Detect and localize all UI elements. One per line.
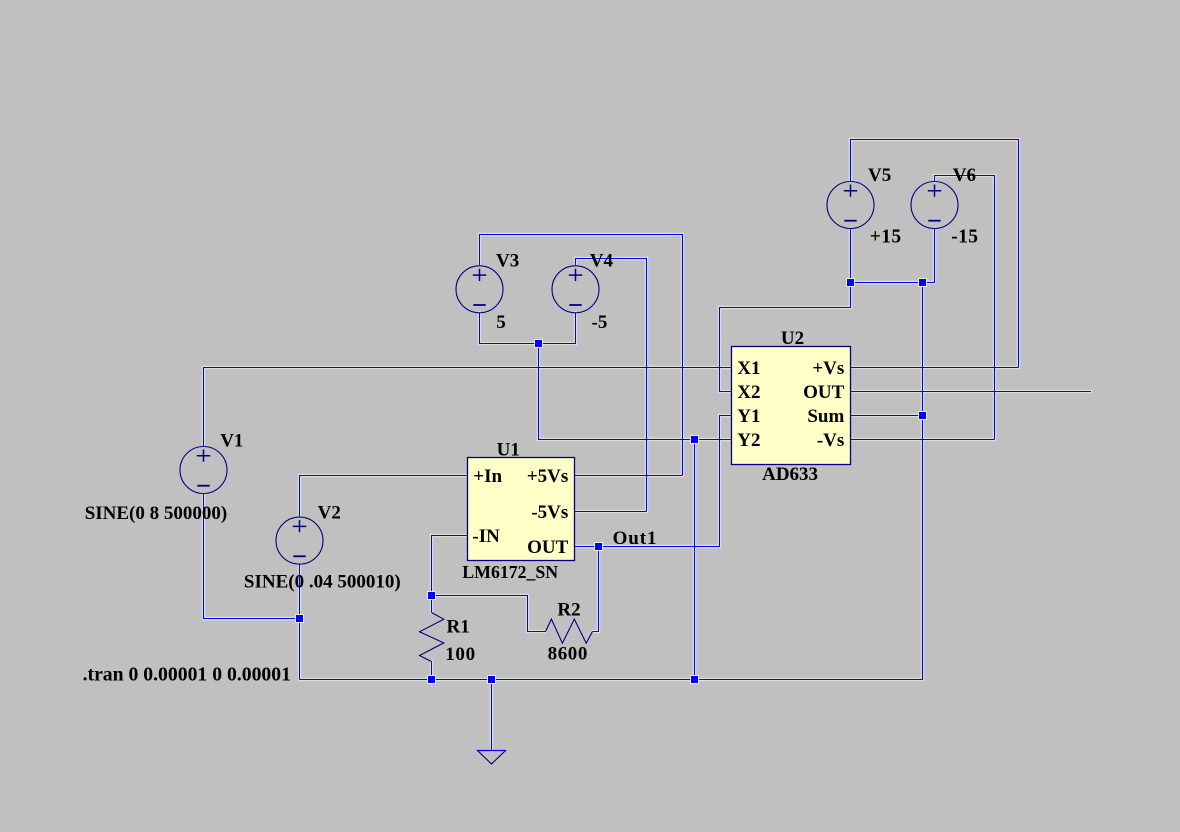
svg-text:Out1: Out1 xyxy=(613,528,658,549)
svg-text:OUT: OUT xyxy=(527,537,569,558)
svg-text:+5Vs: +5Vs xyxy=(527,466,568,487)
wire V1 top to U2 X1 xyxy=(204,368,732,447)
wire U1 +5Vs xyxy=(575,475,683,477)
wire V3V4 node to U2 Y2 xyxy=(539,344,732,440)
wire R1 bottom lead xyxy=(431,662,433,680)
junction ground tap xyxy=(488,676,495,683)
wire ground rail and right riser xyxy=(300,283,923,680)
wire ground stem xyxy=(491,680,493,751)
svg-text:100: 100 xyxy=(445,644,476,665)
svg-text:V2: V2 xyxy=(318,502,341,523)
wire U2 Sum xyxy=(851,415,923,417)
svg-text:R1: R1 xyxy=(447,617,470,638)
junction Out1 xyxy=(595,543,602,550)
svg-text:R2: R2 xyxy=(557,600,580,621)
wire U1 -5Vs xyxy=(575,511,647,513)
wire U2 X2 loop xyxy=(720,283,851,392)
svg-text:5: 5 xyxy=(496,312,506,333)
svg-text:-IN: -IN xyxy=(472,526,500,547)
wire U2 -Vs xyxy=(851,439,995,441)
wire V5-V6 bottom rail xyxy=(851,229,935,283)
wire U2 OUT xyxy=(851,391,1092,393)
voltage source V5 xyxy=(827,182,874,229)
wire V3 top loop to U1 +5Vs xyxy=(480,235,683,476)
wire U1 -IN loop xyxy=(432,536,468,596)
svg-text:X2: X2 xyxy=(737,382,760,403)
svg-text:.tran 0 0.00001 0 0.00001: .tran 0 0.00001 0 0.00001 xyxy=(83,663,291,685)
svg-text:Y1: Y1 xyxy=(737,406,760,427)
voltage source V1 xyxy=(180,447,227,494)
svg-text:Sum: Sum xyxy=(807,406,844,427)
wire U2 +Vs xyxy=(851,367,1019,369)
svg-text:Y2: Y2 xyxy=(737,430,760,451)
resistor R2 body xyxy=(546,619,593,643)
wire V2 top to U1 +In xyxy=(300,476,468,517)
ground symbol xyxy=(478,751,506,765)
wire V5 bottom stub xyxy=(850,229,852,283)
wire V6 top loop to -Vs column xyxy=(935,176,995,440)
wire V3 bottom xyxy=(480,312,539,343)
svg-text:+Vs: +Vs xyxy=(812,358,844,379)
wire R1 top lead xyxy=(431,596,433,613)
svg-text:V1: V1 xyxy=(220,430,243,451)
op-amp U1 LM6172_SN box xyxy=(468,458,575,561)
svg-text:LM6172_SN: LM6172_SN xyxy=(462,562,558,582)
svg-text:-5: -5 xyxy=(592,312,608,333)
junction V6 bottom rail xyxy=(919,279,926,286)
wire V4 top loop to U1 -5Vs xyxy=(576,259,647,512)
svg-text:-Vs: -Vs xyxy=(817,430,844,451)
wire node to R2 left lead xyxy=(432,596,546,632)
resistor R1 body xyxy=(420,613,444,662)
voltage source V3 xyxy=(456,266,503,313)
junction Y2 wire xyxy=(691,436,698,443)
svg-text:OUT: OUT xyxy=(803,382,845,403)
svg-text:SINE(0 8 500000): SINE(0 8 500000) xyxy=(85,503,228,524)
multiplier U2 AD633 box xyxy=(732,347,851,465)
svg-text:-5Vs: -5Vs xyxy=(531,502,568,523)
svg-text:8600: 8600 xyxy=(548,644,588,665)
wire V4 bottom xyxy=(539,312,576,343)
junction V3V4 node xyxy=(535,340,542,347)
wire V1 bottom to node xyxy=(204,494,300,619)
svg-text:X1: X1 xyxy=(737,358,760,379)
junction Y2 drop on rail xyxy=(691,676,698,683)
junction Sum xyxy=(919,412,926,419)
wire U1 OUT to U2 Y1 xyxy=(575,416,732,547)
junction V1-V2 xyxy=(296,615,303,622)
wire Y2 node drop to rail xyxy=(694,440,696,680)
svg-text:-15: -15 xyxy=(951,227,978,248)
svg-text:V4: V4 xyxy=(590,251,614,272)
wire V2 bottom to ground rail xyxy=(299,564,301,679)
svg-text:+In: +In xyxy=(473,466,502,487)
svg-text:V3: V3 xyxy=(496,251,519,272)
svg-text:SINE(0 .04 500010): SINE(0 .04 500010) xyxy=(244,572,401,593)
svg-text:+15: +15 xyxy=(870,227,902,248)
svg-text:V5: V5 xyxy=(868,165,891,186)
voltage source V4 xyxy=(552,266,599,313)
junction V5 bottom xyxy=(847,279,854,286)
junction -IN/R1/R2 xyxy=(428,592,435,599)
wire V5 top loop to +Vs column xyxy=(851,140,1019,368)
svg-text:U1: U1 xyxy=(497,439,520,460)
voltage source V2 xyxy=(276,517,323,564)
junction R1 bottom rail xyxy=(428,676,435,683)
svg-text:U2: U2 xyxy=(781,328,804,349)
svg-text:AD633: AD633 xyxy=(762,464,818,485)
svg-text:V6: V6 xyxy=(953,165,976,186)
wire R2 right lead to Out1 node xyxy=(593,547,599,632)
voltage source V6 xyxy=(911,182,958,229)
